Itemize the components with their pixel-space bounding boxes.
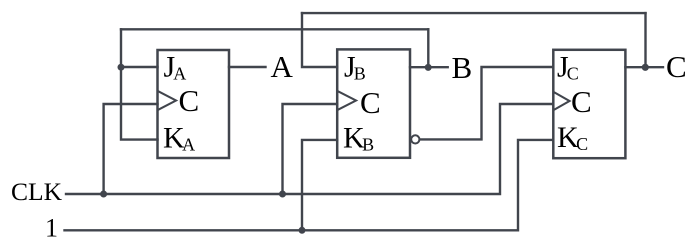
junction dot CLK to B (279, 191, 286, 198)
svg-text:CLK: CLK (11, 177, 63, 206)
wire B output (410, 66, 448, 68)
junction dot JA node (118, 64, 125, 71)
wire B feedback left vertical to KA (121, 29, 158, 139)
wire CLK main (66, 104, 553, 194)
svg-text:C: C (179, 83, 200, 118)
junction dot logic-1 to B (299, 227, 306, 234)
svg-text:C: C (666, 49, 687, 84)
wire JA input (121, 66, 158, 68)
svg-text:B: B (452, 50, 473, 85)
clock triangle C (555, 93, 570, 110)
wire C output (625, 66, 663, 68)
svg-text:A: A (271, 49, 294, 84)
wire logic-1 to KB (302, 140, 337, 230)
flip-flop B box (337, 49, 410, 157)
wire logic-1 main (65, 140, 554, 230)
junction dot C output node (642, 64, 649, 71)
wire B feedback tap vertical (427, 29, 429, 67)
clock triangle A (159, 92, 176, 110)
junction dot B output node (425, 64, 432, 71)
wire CLK to clock A (104, 104, 158, 194)
clock triangle B (339, 92, 357, 110)
wire A output (229, 66, 266, 68)
wire C feedback top (302, 12, 646, 14)
wire B feedback top (121, 28, 428, 30)
wire JB input vertical (302, 13, 337, 67)
wire Qbar B to JC (420, 67, 554, 139)
svg-text:C: C (360, 85, 381, 120)
junction dot CLK to A (100, 191, 107, 198)
wire CLK to clock B (283, 104, 338, 194)
flip-flop C box (553, 50, 625, 158)
svg-text:C: C (571, 84, 592, 119)
wire C feedback right vertical (644, 13, 646, 67)
flip-flop A box (158, 50, 230, 158)
svg-text:1: 1 (45, 214, 58, 243)
bubble Qbar B (411, 135, 419, 143)
